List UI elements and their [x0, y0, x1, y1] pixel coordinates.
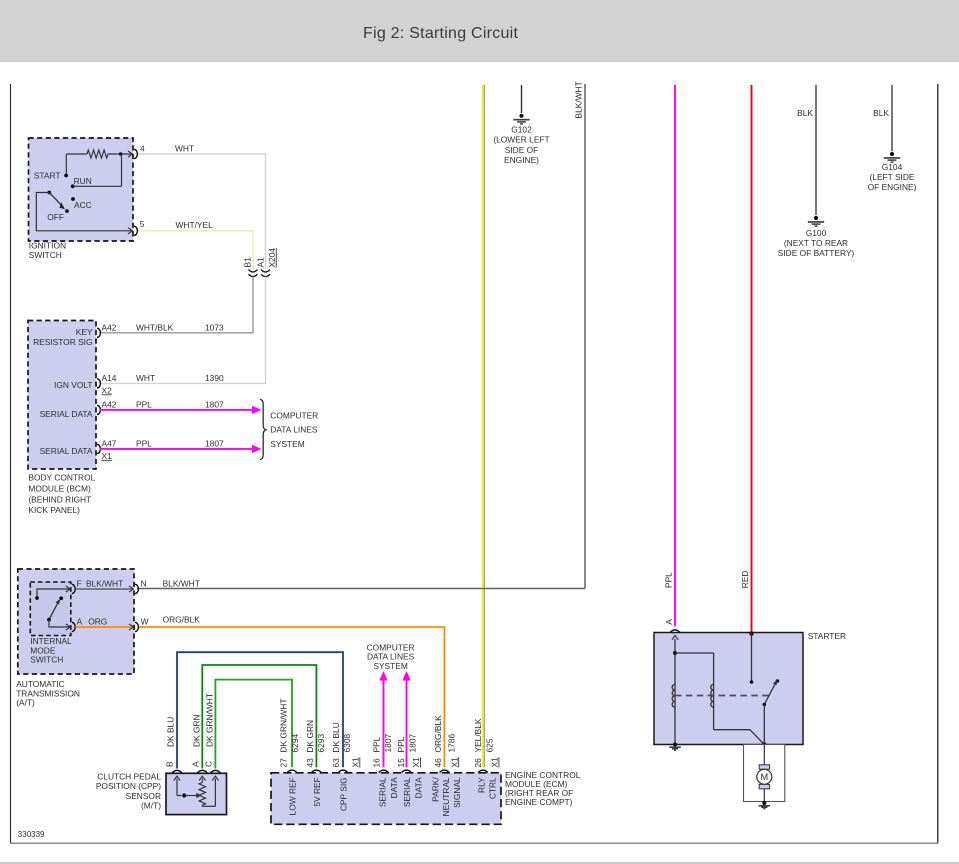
svg-text:4: 4: [140, 144, 145, 154]
svg-text:X1: X1: [350, 757, 360, 768]
svg-text:(M/T): (M/T): [141, 801, 161, 811]
svg-text:SERIAL DATA: SERIAL DATA: [40, 409, 93, 419]
svg-text:PPL: PPL: [372, 736, 382, 752]
svg-text:(A/T): (A/T): [16, 698, 35, 708]
svg-text:ORG/BLK: ORG/BLK: [163, 614, 201, 624]
svg-text:Fig 2: Starting Circuit: Fig 2: Starting Circuit: [363, 25, 518, 42]
svg-text:W: W: [141, 616, 149, 626]
svg-text:46: 46: [433, 758, 443, 768]
svg-text:ACC: ACC: [74, 200, 92, 210]
svg-text:DATA: DATA: [389, 777, 399, 799]
svg-text:A42: A42: [102, 323, 117, 333]
svg-text:START: START: [34, 170, 61, 180]
svg-text:A1: A1: [255, 257, 265, 268]
svg-text:BLK/WHT: BLK/WHT: [86, 579, 123, 589]
svg-text:POSITION (CPP): POSITION (CPP): [96, 781, 161, 791]
svg-text:PPL: PPL: [664, 572, 674, 588]
svg-text:SYSTEM: SYSTEM: [373, 661, 407, 671]
svg-text:F: F: [77, 579, 82, 589]
svg-text:(BEHIND RIGHT: (BEHIND RIGHT: [28, 494, 91, 504]
svg-text:STARTER: STARTER: [808, 631, 846, 641]
svg-text:B: B: [165, 761, 175, 767]
svg-text:PARK/: PARK/: [430, 777, 440, 802]
svg-text:KICK PANEL): KICK PANEL): [28, 505, 80, 515]
svg-text:625: 625: [485, 738, 495, 752]
svg-text:RUN: RUN: [74, 176, 92, 186]
svg-text:WHT: WHT: [175, 144, 194, 154]
svg-text:B1: B1: [242, 257, 252, 268]
svg-text:DATA LINES: DATA LINES: [270, 425, 318, 435]
svg-text:C: C: [203, 761, 213, 767]
svg-text:A42: A42: [102, 400, 117, 410]
svg-text:BLK/WHT: BLK/WHT: [163, 579, 200, 589]
svg-text:WHT: WHT: [136, 373, 155, 383]
svg-text:A14: A14: [102, 373, 117, 383]
svg-text:PPL: PPL: [136, 439, 152, 449]
svg-text:1807: 1807: [407, 734, 417, 753]
svg-text:(NEXT TO REAR: (NEXT TO REAR: [784, 238, 848, 248]
svg-text:X204: X204: [267, 248, 277, 268]
svg-text:ENGINE): ENGINE): [504, 155, 539, 165]
svg-text:X1: X1: [411, 757, 421, 768]
svg-text:YEL/BLK: YEL/BLK: [473, 718, 483, 752]
svg-text:DK GRN: DK GRN: [305, 720, 315, 753]
svg-text:SYSTEM: SYSTEM: [270, 439, 304, 449]
svg-text:16: 16: [372, 758, 382, 768]
svg-text:X2: X2: [102, 385, 113, 395]
svg-text:SERIAL: SERIAL: [378, 777, 388, 807]
svg-text:ORG: ORG: [88, 616, 107, 626]
svg-text:A: A: [77, 616, 83, 626]
svg-text:X1: X1: [449, 757, 459, 768]
svg-text:1390: 1390: [205, 373, 224, 383]
svg-text:6294: 6294: [290, 734, 300, 753]
svg-text:DK GRN: DK GRN: [191, 714, 201, 747]
svg-text:N: N: [141, 579, 147, 589]
svg-text:COMPUTER: COMPUTER: [270, 410, 318, 420]
svg-text:PPL: PPL: [136, 400, 152, 410]
svg-text:OF ENGINE): OF ENGINE): [868, 182, 917, 192]
svg-text:SENSOR: SENSOR: [126, 791, 161, 801]
svg-text:ORG/BLK: ORG/BLK: [433, 715, 443, 753]
svg-text:X1: X1: [102, 451, 113, 461]
svg-text:WHT/YEL: WHT/YEL: [176, 220, 214, 230]
svg-text:PPL: PPL: [396, 736, 406, 752]
svg-text:RLY: RLY: [477, 777, 487, 793]
svg-text:BLK: BLK: [873, 108, 889, 118]
svg-text:OFF: OFF: [47, 212, 64, 222]
svg-text:15: 15: [396, 758, 406, 768]
svg-text:(LEFT SIDE: (LEFT SIDE: [870, 172, 915, 182]
svg-text:G100: G100: [806, 228, 827, 238]
svg-text:ENGINE COMPT): ENGINE COMPT): [505, 797, 573, 807]
svg-text:RESISTOR SIG: RESISTOR SIG: [33, 337, 92, 347]
svg-text:330339: 330339: [18, 830, 45, 839]
svg-text:A: A: [190, 761, 200, 767]
svg-text:M: M: [760, 772, 768, 782]
svg-text:DK GRN/WHT: DK GRN/WHT: [279, 699, 289, 753]
svg-text:6308: 6308: [342, 734, 352, 753]
svg-text:SERIAL: SERIAL: [402, 777, 412, 807]
svg-text:SWITCH: SWITCH: [29, 250, 62, 260]
svg-text:(LOWER LEFT: (LOWER LEFT: [493, 135, 549, 145]
svg-text:SIDE OF BATTERY): SIDE OF BATTERY): [778, 248, 855, 258]
svg-text:NEUTRAL: NEUTRAL: [441, 777, 451, 816]
svg-text:DK GRN/WHT: DK GRN/WHT: [204, 693, 214, 747]
svg-text:A47: A47: [102, 439, 117, 449]
svg-text:SIGNAL: SIGNAL: [452, 777, 462, 808]
svg-text:MODULE (BCM): MODULE (BCM): [28, 484, 91, 494]
svg-text:BLK/WHT: BLK/WHT: [574, 81, 584, 118]
svg-text:SWITCH: SWITCH: [30, 655, 63, 665]
svg-text:63: 63: [331, 758, 341, 768]
svg-text:1807: 1807: [205, 400, 224, 410]
svg-text:1807: 1807: [205, 439, 224, 449]
svg-text:SERIAL DATA: SERIAL DATA: [40, 446, 93, 456]
svg-text:IGN VOLT: IGN VOLT: [54, 380, 92, 390]
svg-text:27: 27: [279, 758, 289, 768]
svg-text:LOW REF: LOW REF: [288, 777, 298, 815]
svg-text:A: A: [664, 619, 674, 625]
svg-text:DK BLU: DK BLU: [331, 722, 341, 752]
svg-text:CTRL: CTRL: [487, 777, 497, 799]
svg-text:BODY CONTROL: BODY CONTROL: [28, 473, 95, 483]
svg-text:SIDE OF: SIDE OF: [505, 145, 539, 155]
svg-text:X1: X1: [490, 757, 500, 768]
svg-text:1786: 1786: [447, 734, 457, 753]
svg-text:5V REF: 5V REF: [312, 777, 322, 806]
svg-text:WHT/BLK: WHT/BLK: [136, 323, 174, 333]
svg-text:BLK: BLK: [797, 108, 813, 118]
svg-text:5: 5: [140, 219, 145, 229]
svg-text:DATA: DATA: [413, 777, 423, 799]
svg-text:43: 43: [305, 758, 315, 768]
svg-text:G104: G104: [882, 162, 903, 172]
svg-text:RED: RED: [740, 571, 750, 589]
svg-text:DK BLU: DK BLU: [166, 717, 176, 747]
svg-text:KEY: KEY: [76, 327, 93, 337]
svg-text:6293: 6293: [316, 734, 326, 753]
svg-text:26: 26: [473, 758, 483, 768]
svg-text:1073: 1073: [205, 323, 224, 333]
svg-text:CLUTCH PEDAL: CLUTCH PEDAL: [97, 772, 161, 782]
svg-text:CPP SIG: CPP SIG: [339, 777, 349, 811]
svg-text:G102: G102: [511, 125, 532, 135]
